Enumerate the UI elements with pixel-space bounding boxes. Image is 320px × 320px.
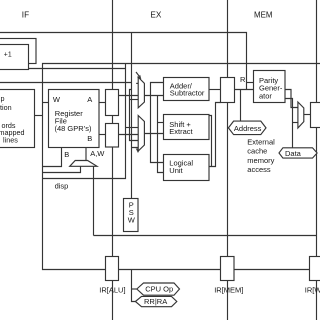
svg-text:ator: ator <box>259 91 272 100</box>
PSW text <box>128 201 136 225</box>
svg-text:Extract: Extract <box>169 127 193 136</box>
mux M3 <box>298 102 304 128</box>
wire M3 out to MEM latch <box>304 114 311 116</box>
icache text lines <box>0 94 24 145</box>
svg-text:MEM: MEM <box>254 10 272 19</box>
stage divider IF/EX <box>112 0 114 320</box>
wire RF B output to latch2 <box>99 134 106 136</box>
wire branch to mux M2 input1 <box>126 127 139 129</box>
label disp <box>55 182 69 191</box>
external cache memory access text <box>247 137 275 174</box>
svg-text:Unit: Unit <box>169 166 183 175</box>
vertical bus x=125.5 (PC+1) down to disp bus <box>43 64 126 179</box>
parity text <box>259 76 283 100</box>
riser x=150.8 to adder input1 <box>151 83 164 96</box>
label IR[WB] cropped <box>305 286 320 295</box>
EX/MEM result latch <box>221 78 235 103</box>
diagonal arrow into mux M1 top corner <box>136 72 139 76</box>
svg-text:lines: lines <box>3 136 18 145</box>
register file labels <box>53 95 92 143</box>
shift text <box>169 120 193 136</box>
PSW box <box>124 199 139 232</box>
label IR[ALU] <box>99 286 125 295</box>
svg-text:B: B <box>64 150 69 159</box>
svg-text:cache: cache <box>247 147 267 156</box>
wire top bus y=32 <box>0 33 247 90</box>
svg-text:RR|RA: RR|RA <box>144 297 167 306</box>
svg-text:IR[MEM]: IR[MEM] <box>214 286 243 295</box>
stub into M1 <box>136 82 138 84</box>
stage label EX <box>150 10 161 19</box>
IR[MEM] latch <box>221 257 235 281</box>
svg-text:IR[W: IR[W <box>305 286 320 295</box>
svg-text:Address: Address <box>234 124 262 133</box>
wire down to address chevron <box>240 90 242 122</box>
svg-text:External: External <box>247 137 275 146</box>
wire writeback into register file W port <box>43 102 49 104</box>
wire stub into parity at y=82.5 <box>247 82 254 84</box>
svg-text:R: R <box>240 75 246 84</box>
stage divider EX/MEM <box>227 0 229 320</box>
wire M2 output to shift input2 <box>144 133 163 135</box>
pipeline latch B (IF/EX) <box>106 124 119 148</box>
parity generator box <box>254 71 286 103</box>
store data bus y=235.8 <box>94 235 317 237</box>
wire from +1 to v-bus x=125.5 <box>29 68 126 70</box>
riser x=150.8 down to logical input1 <box>151 96 164 163</box>
RR|RA text <box>144 297 167 306</box>
svg-text:EX: EX <box>150 10 161 19</box>
+1 incrementer box <box>0 45 29 70</box>
align trapezoid (disp) <box>70 161 97 167</box>
label A,W below box <box>90 149 105 158</box>
svg-text:disp: disp <box>55 182 69 191</box>
riser x=157 down to logical input2 <box>158 96 164 173</box>
wire branch at y=147.5 with down arrow <box>132 148 139 151</box>
svg-text:Data: Data <box>285 149 302 158</box>
wire latch R out to parity generator <box>235 89 254 91</box>
disp wire into trapezoid bottom <box>43 166 81 172</box>
stage label IF <box>22 10 29 19</box>
IR[WB] latch (cropped) <box>310 257 320 281</box>
wire trapezoid output down to store bus <box>93 166 95 235</box>
stub to CPU Op chevron <box>132 288 137 290</box>
wire adder output to EX/MEM latch <box>209 89 221 91</box>
svg-text:W: W <box>128 216 136 225</box>
stage label MEM <box>254 10 272 19</box>
address text <box>234 124 262 133</box>
svg-text:B: B <box>87 134 92 143</box>
wire icache to writeback vertical <box>35 115 43 117</box>
arrowhead down at (138,152) <box>136 149 141 154</box>
operand mux M2 <box>138 116 144 152</box>
logical text <box>169 159 193 175</box>
register file box <box>49 90 100 148</box>
operand mux M1 <box>138 77 144 108</box>
stage divider MEM/WB <box>316 0 318 320</box>
branch to mux M3 lower input <box>293 122 298 124</box>
adder text <box>170 81 205 97</box>
svg-text:A,W: A,W <box>90 149 105 158</box>
CPU Op chevron <box>137 283 180 295</box>
logical output merge wire <box>209 103 221 167</box>
data chevron <box>279 148 317 158</box>
data text <box>285 149 302 158</box>
IR[ALU] latch <box>106 257 119 281</box>
svg-text:access: access <box>247 165 271 174</box>
MEM data latch (cropped) <box>311 103 320 128</box>
shift output U-wire <box>209 116 212 167</box>
parity output upper to mux M3 <box>285 90 298 108</box>
svg-text:p: p <box>1 94 5 103</box>
label B below box <box>64 150 69 159</box>
svg-text:A: A <box>87 95 92 104</box>
address chevron <box>228 121 266 135</box>
svg-text:(48 GPR’s): (48 GPR’s) <box>55 124 92 133</box>
parity output lower to data chevron <box>285 99 293 148</box>
label IR[MEM] <box>214 286 243 295</box>
writeback bus y=63.75 with vertical x=42.75 <box>43 64 320 270</box>
svg-text:memory: memory <box>247 156 274 165</box>
pipeline latch A (IF/EX) <box>106 90 119 116</box>
bus y=83 into mux M1 <box>0 82 132 84</box>
CPU Op text <box>145 285 173 294</box>
label R <box>240 75 246 84</box>
+1 incrementer shadow box <box>0 39 36 64</box>
RR|RA chevron <box>135 296 176 306</box>
vertical wire x=129.5 operand bypass <box>130 90 139 141</box>
vertical wire x=131.7 from y=32 to PSW <box>131 33 133 199</box>
shift+extract box <box>164 115 210 140</box>
logical unit box <box>164 155 210 181</box>
wire M1 output to adder <box>144 95 163 97</box>
wire branch to mux M1 input <box>130 99 139 101</box>
svg-text:IR[ALU]: IR[ALU] <box>99 286 125 295</box>
svg-text:IF: IF <box>22 10 29 19</box>
branch to shift input1 <box>158 122 164 124</box>
wire latch1 out to mux M1 <box>119 95 139 97</box>
wire RF B port down-left <box>43 148 62 167</box>
wire RF A,W port down to align trapezoid <box>85 148 87 161</box>
svg-text:CPU Op: CPU Op <box>145 285 173 294</box>
wire to opcode chevrons <box>132 270 136 302</box>
wire RF A output to latch1 <box>99 102 106 104</box>
label +1 <box>4 52 12 59</box>
svg-text:Subtractor: Subtractor <box>170 89 205 98</box>
svg-text:W: W <box>53 95 61 104</box>
svg-text:tion: tion <box>0 103 12 112</box>
adder/subtractor box <box>164 78 210 101</box>
instruction cache box (cropped left) <box>0 90 35 148</box>
wire latch2 out to mux M2 <box>119 134 139 136</box>
arrowhead diagonal <box>137 75 141 79</box>
svg-text:+1: +1 <box>4 52 12 59</box>
